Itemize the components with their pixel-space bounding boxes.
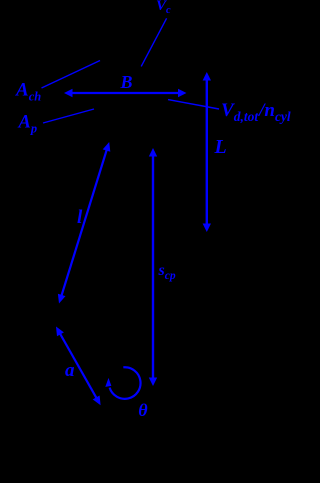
- crank radius arrow a (double-headed): [59, 332, 97, 400]
- bore arrow B (double-headed): [70, 92, 181, 94]
- leader line to V_d,tot/n_cyl: [168, 100, 219, 109]
- crank angle circular arrow theta: [110, 367, 141, 399]
- leader line from A_ch: [42, 61, 101, 89]
- svg-text:B: B: [120, 72, 133, 92]
- svg-text:l: l: [77, 207, 83, 228]
- connecting rod length arrow l (double-headed): [61, 148, 107, 298]
- crank-to-piston distance arrow s_cp (double-headed): [152, 154, 154, 380]
- stroke arrow L (double-headed, right): [206, 78, 208, 226]
- svg-text:L: L: [214, 136, 227, 158]
- svg-text:a: a: [65, 360, 75, 381]
- leader line from V_c: [141, 18, 166, 66]
- leader line from A_p: [43, 109, 94, 123]
- svg-text:θ: θ: [138, 400, 148, 420]
